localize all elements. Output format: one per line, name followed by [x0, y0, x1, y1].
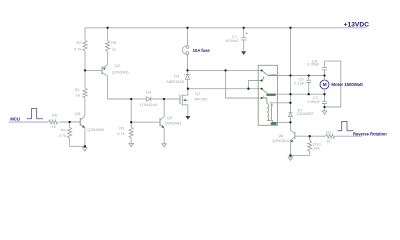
resistor R5: [68, 122, 72, 146]
svg-text:Reverse Rotation: Reverse Rotation: [353, 131, 387, 136]
svg-text:1 OHM: 1 OHM: [269, 74, 277, 77]
resistor R7: [326, 134, 336, 138]
wire R1 top: [84, 70, 86, 88]
transistor Q5: [79, 118, 81, 126]
wire throw1 to motor top: [278, 75, 325, 77]
Q2 emitter arrow: [103, 67, 106, 70]
diode D7: [289, 103, 293, 123]
wire MCU line: [9, 121, 49, 123]
transistor Q4: [159, 118, 161, 126]
wire R2 bottom: [84, 51, 86, 70]
svg-text:Motor 1500Watt: Motor 1500Watt: [331, 82, 363, 87]
wire node fuse to relay pin1: [188, 69, 262, 71]
wire Q6 emitter down: [289, 140, 291, 155]
resistor R2: [83, 40, 87, 51]
pulse symbol MCU: [27, 109, 43, 119]
wire fuse top: [187, 28, 189, 46]
wire Q4 emitter down: [163, 128, 165, 144]
capacitor C7: [241, 28, 247, 51]
ground at R3: [129, 143, 134, 146]
wire fuse bottom: [187, 55, 189, 71]
svg-text:M: M: [323, 82, 327, 87]
relay contact blade 1: [262, 70, 278, 75]
svg-text:4.7k: 4.7k: [58, 133, 66, 138]
Q6 emitter arrow: [290, 140, 293, 142]
svg-text:MCU: MCU: [10, 117, 20, 122]
svg-text:MBR1545: MBR1545: [167, 79, 184, 84]
svg-text:1k: 1k: [326, 138, 330, 143]
svg-text:R3: R3: [119, 125, 125, 130]
wire throw2 to motor bottom: [278, 93, 325, 95]
wire Q6 base line: [295, 135, 326, 137]
wire Q4 collector up: [163, 99, 165, 117]
wire coil feed: [226, 70, 262, 98]
relay armature arrowhead: [263, 76, 265, 78]
svg-text:10k: 10k: [313, 145, 319, 150]
transistor arrows: [82, 67, 294, 143]
wire D4 anode: [131, 98, 146, 100]
wire node to Q4 base circuit: [131, 99, 160, 122]
svg-text:R8: R8: [111, 40, 117, 45]
svg-text:0.1uF: 0.1uF: [294, 81, 305, 86]
svg-text:K: K: [263, 94, 265, 98]
wire ground stub C7: [243, 50, 245, 53]
Q4 emitter arrow: [161, 125, 164, 128]
svg-text:R6: R6: [52, 113, 58, 118]
svg-text:1k: 1k: [76, 92, 80, 97]
wire R6 to Q5 base: [59, 121, 80, 123]
svg-text:D1N4002: D1N4002: [297, 111, 313, 116]
svg-text:10A fuse: 10A fuse: [193, 48, 211, 53]
motor M1: [320, 76, 329, 95]
svg-text:Q5: Q5: [75, 111, 81, 116]
wire to reverse rotation: [335, 135, 361, 137]
diode D3: [185, 70, 191, 88]
blue labels: [10, 22, 387, 137]
gray labels: [52, 34, 333, 150]
capacitor C3: [322, 94, 327, 107]
svg-text:Q4: Q4: [167, 115, 173, 120]
svg-text:4.7k: 4.7k: [117, 131, 125, 136]
svg-text:0.05uF: 0.05uF: [308, 99, 321, 104]
svg-text:D4: D4: [146, 90, 152, 95]
wire Q2 collector down and right: [108, 76, 132, 99]
svg-text:Q2N3904: Q2N3904: [165, 121, 182, 126]
resistor R8: [106, 41, 110, 52]
svg-text:R2: R2: [76, 40, 82, 45]
wire R2 top: [84, 28, 86, 40]
svg-text:R7: R7: [326, 129, 332, 134]
wire +13VDC top rail: [85, 27, 367, 29]
fuse F1: [186, 46, 189, 49]
svg-text:D3: D3: [174, 73, 180, 78]
wire trunk from rail: [289, 28, 291, 103]
relay contact blade 2: [262, 89, 278, 95]
wire R5 bottom to Q5 emitter: [70, 145, 85, 147]
svg-text:Q2: Q2: [115, 63, 121, 68]
ground at C3 node: [322, 111, 327, 114]
wire drain node to relay pin3: [188, 88, 262, 90]
Q1 body arrow: [183, 99, 186, 101]
wire Q2 base: [85, 69, 102, 71]
ground at C7: [241, 51, 246, 55]
wire ground stub C3 node: [324, 107, 326, 111]
svg-text:R5: R5: [61, 127, 67, 132]
relay coil: [262, 98, 267, 104]
wire stub to relay pin2: [248, 81, 261, 89]
wire D4 cathode to gate: [151, 98, 180, 100]
svg-text:Q2N3906: Q2N3906: [112, 69, 129, 74]
ground at Q6 emitter: [288, 157, 293, 160]
mosfet Q1: [179, 95, 181, 105]
wire Q1 drain: [187, 89, 189, 96]
transistor Q6: [289, 122, 291, 130]
resistor R6: [49, 120, 59, 124]
diode D4: [146, 97, 150, 101]
svg-text:75: 75: [111, 47, 116, 52]
resistor R3: [129, 122, 133, 143]
capacitor C8: [322, 61, 327, 75]
wire R8 top: [107, 28, 109, 41]
relay K1 box: [258, 65, 277, 125]
resistor R10: [308, 136, 312, 155]
transistor Q2: [101, 66, 103, 74]
ground at Q1 source: [185, 116, 190, 120]
relay pin dots: [261, 69, 263, 98]
svg-text:Q2N3904: Q2N3904: [87, 127, 104, 132]
wire coil return: [278, 121, 291, 123]
svg-text:IRF150: IRF150: [194, 96, 208, 101]
wire R1 to Q5 collector: [84, 98, 86, 116]
wire Q1 source down: [187, 105, 189, 116]
svg-text:4.7k: 4.7k: [74, 47, 82, 52]
relay green label throw2: [266, 94, 275, 96]
svg-text:6700uF: 6700uF: [226, 38, 240, 43]
relay green label coil pin: [271, 122, 277, 125]
resistor R1: [83, 88, 87, 99]
svg-text:0.05uF: 0.05uF: [307, 62, 320, 67]
wire Q5 emitter down: [84, 128, 86, 146]
Q5 emitter arrow: [82, 125, 85, 128]
capacitor C5: [306, 76, 311, 95]
relay armature arrow: [263, 77, 265, 80]
wire motor loop top/right/bottom: [325, 61, 341, 107]
pulse symbol reverse: [337, 121, 353, 130]
wire R8 to Q2 emitter: [107, 52, 109, 65]
wire R10 bottom to emitter: [290, 155, 309, 157]
svg-text:D1N4148: D1N4148: [140, 102, 156, 107]
svg-text:+13VDC: +13VDC: [344, 22, 370, 29]
svg-text:1k: 1k: [52, 124, 56, 129]
wire relay pin to D7 node: [270, 102, 291, 104]
ground at Q4 emitter: [162, 144, 167, 147]
ground at Q5 emitter: [83, 148, 88, 151]
svg-text:Q2N2904: Q2N2904: [272, 138, 289, 143]
